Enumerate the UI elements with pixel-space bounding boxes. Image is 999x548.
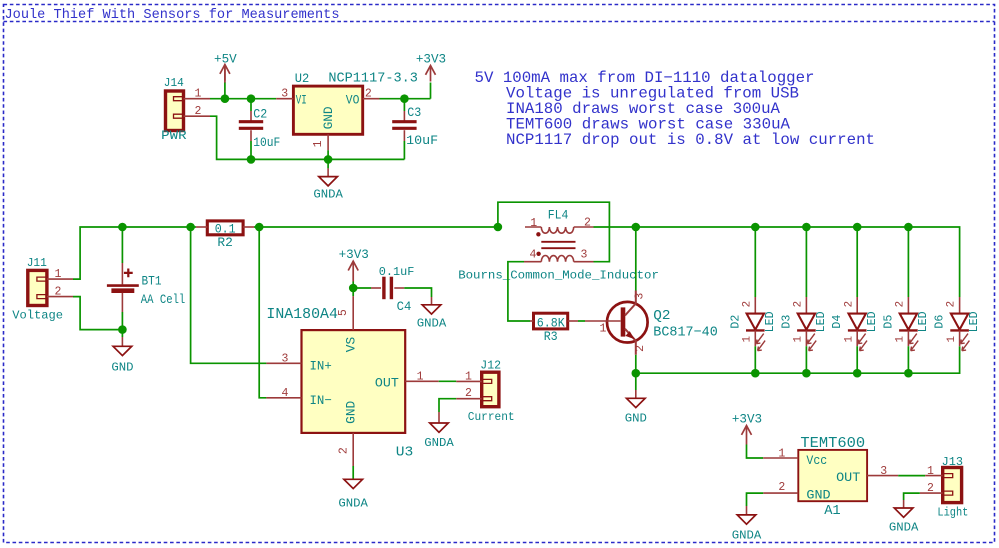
- svg-text:C3: C3: [407, 106, 421, 120]
- wire LED top rail: [755, 227, 959, 297]
- svg-text:LED: LED: [764, 311, 777, 332]
- wire C3 bottom to GNDA rail: [403, 141, 405, 159]
- svg-text:+3V3: +3V3: [416, 52, 446, 66]
- svg-text:1: 1: [465, 371, 472, 384]
- junction D2 anode net: [751, 223, 760, 232]
- wire A1.OUT to J13: [898, 475, 925, 477]
- svg-text:FL4: FL4: [548, 208, 569, 222]
- wire Q2 collector up: [635, 227, 637, 291]
- svg-text:1: 1: [417, 370, 424, 383]
- svg-text:1: 1: [600, 323, 607, 336]
- svg-text:2: 2: [634, 345, 647, 352]
- wire D3 to return rail: [805, 346, 807, 373]
- U2 pin 2 VO: [363, 98, 380, 100]
- op-amp U3 INA180A4: [302, 330, 406, 433]
- FL4 pin 2: [574, 226, 594, 228]
- junction +5V net: [221, 94, 230, 103]
- D4 light arrows: [858, 334, 866, 344]
- capacitor C4 0.1uF: [371, 287, 381, 289]
- U3 pin 2 GND: [352, 433, 354, 466]
- J13 pin 2: [920, 492, 943, 494]
- D4 cathode pin 1: [856, 330, 858, 346]
- resistor R2 0.1: [207, 221, 243, 235]
- wire J14.1 to U2.VI: [210, 98, 276, 100]
- U3 pin 5 VS: [352, 296, 354, 330]
- junction R2 right: [255, 223, 264, 232]
- svg-text:1: 1: [530, 217, 537, 230]
- D5 diode triangle: [900, 314, 917, 330]
- ground GNDA symbol J13: [894, 508, 913, 517]
- svg-text:2: 2: [895, 301, 907, 307]
- svg-text:5: 5: [337, 309, 350, 316]
- svg-text:R3: R3: [544, 330, 558, 344]
- wire FL4.4 to R3: [508, 262, 530, 321]
- svg-text:3: 3: [282, 352, 289, 365]
- ground GNDA symbol J12: [430, 423, 449, 432]
- D5 cathode bar: [899, 329, 918, 331]
- svg-text:OUT: OUT: [836, 470, 861, 485]
- D5 cathode pin 1: [907, 330, 909, 346]
- D2 cathode pin 1: [754, 330, 756, 346]
- svg-text:2: 2: [843, 301, 855, 307]
- D6 anode pin 2: [959, 297, 961, 314]
- svg-text:GNDA: GNDA: [338, 497, 368, 511]
- wire D5 to return rail: [907, 346, 909, 373]
- svg-text:D2: D2: [729, 315, 742, 329]
- wire R3 to Q2 base: [578, 320, 585, 322]
- wire rail to D2: [754, 227, 756, 297]
- svg-text:INA180A4: INA180A4: [266, 306, 338, 323]
- wire: [352, 282, 354, 289]
- svg-text:1: 1: [312, 140, 325, 147]
- wire rail to D4: [856, 227, 858, 297]
- wire emitter to LED return rail: [636, 372, 756, 374]
- D3 cathode pin 1: [805, 330, 807, 346]
- svg-text:Current: Current: [468, 410, 515, 424]
- junction Q2 collector net: [632, 223, 641, 232]
- svg-text:Bourns_Common_Mode_Inductor: Bourns_Common_Mode_Inductor: [458, 269, 659, 283]
- svg-text:GND: GND: [344, 400, 359, 423]
- wire J11.2 to battery minus: [73, 297, 122, 330]
- wire R2 to FL4 rail: [254, 226, 498, 228]
- svg-text:GND: GND: [111, 360, 133, 374]
- Q2 collector: [625, 291, 636, 316]
- FL4 pin 4: [524, 261, 541, 263]
- junction D4 cathode net: [853, 369, 862, 378]
- junction D2 cathode net: [751, 369, 760, 378]
- wire BT1 minus to GND: [121, 312, 123, 330]
- junction FL4 pin1 net: [494, 223, 503, 232]
- FL4 top winding: [541, 227, 573, 233]
- D4 diode triangle: [849, 314, 866, 330]
- svg-text:1: 1: [843, 336, 855, 342]
- wire J12.2 to GNDA: [439, 399, 456, 412]
- svg-text:D4: D4: [831, 315, 844, 329]
- svg-text:2: 2: [338, 447, 351, 454]
- power symbol +3V3 (supply): [430, 66, 432, 82]
- wire VS to C4: [353, 287, 371, 289]
- wire to +3V3: [430, 83, 432, 99]
- sensor A1 TEMT600: [798, 450, 867, 501]
- capacitor C2 pin top: [250, 111, 252, 121]
- wire rail to D5: [907, 227, 909, 297]
- D3 diode triangle: [798, 314, 815, 330]
- svg-text:1: 1: [927, 465, 934, 478]
- svg-text:NCP1117 drop out is 0.8V at lo: NCP1117 drop out is 0.8V at low current: [506, 131, 875, 149]
- wire +3V3 to VS: [352, 288, 354, 296]
- J12 pin 1: [456, 380, 482, 382]
- R2 right pin: [243, 226, 254, 228]
- svg-text:U2: U2: [295, 71, 310, 86]
- D5 anode pin 2: [907, 297, 909, 314]
- J11 pin 2: [47, 296, 73, 298]
- junction C2 bottom: [247, 155, 256, 164]
- ground GNDA symbol U3: [344, 479, 363, 488]
- wire C4 to GNDA: [404, 288, 431, 297]
- svg-text:2: 2: [55, 286, 62, 299]
- capacitor C3 pin top: [403, 111, 405, 121]
- svg-text:Voltage: Voltage: [12, 309, 63, 323]
- U3 pin 3 IN+: [266, 362, 301, 364]
- wire U2.VO to +3V3: [380, 98, 431, 100]
- U2 pin 1 GND: [327, 134, 329, 150]
- svg-text:R2: R2: [217, 236, 233, 250]
- wire R2 left to U3 IN+: [191, 227, 267, 363]
- wire bypass to FL4.3: [498, 202, 610, 262]
- svg-text:2: 2: [793, 301, 805, 307]
- wire J14.2 / GNDA rail: [210, 116, 404, 159]
- svg-text:VS: VS: [344, 337, 359, 353]
- svg-text:3: 3: [634, 293, 647, 300]
- junction D5 anode net: [904, 223, 913, 232]
- svg-text:Light: Light: [937, 505, 968, 519]
- svg-text:LED: LED: [866, 311, 879, 332]
- svg-text:2: 2: [195, 105, 202, 118]
- wire rail to BT1 plus: [121, 227, 123, 263]
- R3 right pin: [568, 320, 578, 322]
- U3 pin 4 IN-: [266, 397, 301, 399]
- wire to GND: [635, 373, 637, 390]
- power +3V3 (TEMT600): [746, 426, 748, 445]
- svg-text:A1: A1: [824, 503, 841, 519]
- junction D4 anode net: [853, 223, 862, 232]
- svg-text:PWR: PWR: [161, 129, 187, 143]
- D4 anode pin 2: [856, 297, 858, 314]
- svg-text:AA Cell: AA Cell: [141, 293, 186, 307]
- svg-text:3: 3: [581, 248, 588, 261]
- wire to C2 top: [250, 99, 252, 111]
- A1 pin 3 OUT: [867, 475, 898, 477]
- junction BT1 minus: [118, 325, 127, 334]
- svg-text:4: 4: [530, 248, 537, 261]
- svg-text:GND: GND: [625, 411, 647, 425]
- svg-text:GNDA: GNDA: [313, 188, 343, 202]
- wire +3V3 to TEMT Vcc: [747, 445, 764, 459]
- FL4 pin 1: [525, 226, 541, 228]
- svg-text:NCP1117-3.3: NCP1117-3.3: [328, 72, 418, 87]
- D5 light arrows: [909, 334, 917, 344]
- svg-text:1: 1: [793, 336, 805, 342]
- junction BT1 plus: [118, 223, 127, 232]
- D3 cathode bar: [797, 329, 816, 331]
- connector J13: [943, 468, 962, 503]
- Q2 base pin 1: [585, 320, 621, 322]
- capacitor C2: [239, 120, 263, 123]
- ground GNDA (A1): [746, 506, 748, 515]
- regulator U2 NCP1117-3.3: [293, 86, 362, 134]
- svg-text:IN+: IN+: [310, 359, 332, 374]
- wire: [191, 226, 196, 228]
- svg-text:J12: J12: [480, 358, 501, 372]
- svg-text:4: 4: [282, 387, 289, 400]
- svg-text:1: 1: [946, 336, 958, 342]
- svg-text:GNDA: GNDA: [417, 316, 447, 330]
- junction VS: [349, 284, 358, 293]
- J13 pin 1: [925, 475, 943, 477]
- svg-text:10uF: 10uF: [253, 136, 280, 150]
- ground GNDA symbol A1: [737, 515, 756, 524]
- D2 cathode bar: [746, 329, 765, 331]
- D3 light arrows: [807, 334, 815, 344]
- svg-text:LED: LED: [917, 311, 930, 332]
- D6 diode triangle: [951, 314, 968, 330]
- svg-text:0.1: 0.1: [215, 222, 236, 237]
- J11 pin 1: [47, 278, 73, 280]
- svg-text:D5: D5: [882, 315, 895, 329]
- svg-text:GND: GND: [321, 106, 336, 129]
- ground GNDA symbol: [319, 177, 338, 186]
- svg-text:+5V: +5V: [214, 52, 237, 66]
- BT1 plus sign: [124, 269, 133, 278]
- svg-text:TEMT600: TEMT600: [800, 436, 865, 452]
- junction Q2 emitter: [632, 369, 641, 378]
- svg-text:VO: VO: [346, 93, 360, 108]
- U2 pin 3 VI: [276, 98, 293, 100]
- D2 anode pin 2: [754, 297, 756, 314]
- wire U3.GND down: [352, 466, 354, 479]
- svg-text:2: 2: [365, 87, 372, 100]
- svg-text:C4: C4: [397, 300, 412, 314]
- junction C3 top: [400, 94, 409, 103]
- R3 left pin: [530, 320, 534, 322]
- R2 left pin: [196, 226, 207, 228]
- svg-text:10uF: 10uF: [406, 134, 438, 148]
- connector J11: [28, 270, 47, 305]
- wire LED bottom rail: [755, 346, 959, 373]
- svg-text:1: 1: [895, 336, 907, 342]
- wire Q2 emitter down: [635, 355, 637, 373]
- ground GNDA symbol C4: [422, 305, 441, 314]
- junction U2 GND: [324, 155, 333, 164]
- D6 light arrows: [961, 334, 969, 344]
- FL4 bottom winding: [541, 255, 573, 261]
- wire to GNDA: [327, 159, 329, 168]
- svg-text:BT1: BT1: [142, 274, 162, 288]
- wire C2 bottom to GNDA rail: [250, 141, 252, 159]
- svg-text:J13: J13: [942, 455, 963, 469]
- svg-text:2: 2: [946, 301, 958, 307]
- FL4 core lines: [541, 241, 575, 243]
- FL4 polarity dot bottom: [536, 252, 540, 256]
- wire to +5V: [224, 82, 226, 98]
- svg-text:IN−: IN−: [310, 393, 332, 408]
- ground GNDA (J12): [438, 412, 440, 423]
- svg-text:2: 2: [741, 301, 753, 307]
- svg-text:GNDA: GNDA: [424, 436, 454, 450]
- wire FL4.2 to LED rail: [594, 226, 756, 228]
- D6 cathode pin 1: [959, 330, 961, 346]
- connector J12: [482, 372, 499, 407]
- wire U3.OUT to J12.1: [439, 380, 457, 382]
- FL4 pin 3: [574, 261, 594, 263]
- junction R2 left: [186, 223, 195, 232]
- svg-text:Q2: Q2: [653, 308, 670, 324]
- wire D4 to return rail: [856, 346, 858, 373]
- wire U2.GND to rail: [327, 150, 329, 159]
- wire to GND: [121, 330, 123, 337]
- D2 light arrows: [756, 334, 764, 344]
- svg-text:GND: GND: [806, 488, 831, 503]
- svg-text:Vcc: Vcc: [806, 453, 827, 468]
- ground GNDA (J13): [903, 500, 905, 508]
- ground GNDA (C4): [431, 297, 433, 305]
- D6 cathode bar: [950, 329, 969, 331]
- D4 cathode bar: [848, 329, 867, 331]
- wire R2 right to U3 IN-: [259, 227, 266, 398]
- wire rail to D3: [805, 227, 807, 297]
- svg-text:GNDA: GNDA: [889, 521, 919, 535]
- svg-text:J11: J11: [27, 256, 47, 270]
- resistor R3 6.8K: [534, 313, 568, 329]
- wire J13.2 to GNDA: [904, 493, 920, 500]
- svg-text:2: 2: [778, 481, 785, 494]
- junction D3 anode net: [802, 223, 811, 232]
- svg-text:OUT: OUT: [375, 376, 399, 391]
- ground GND symbol Q2: [627, 398, 646, 407]
- wire D2 to return rail: [754, 346, 756, 373]
- power +3V3 (U3): [352, 261, 354, 281]
- svg-text:1: 1: [55, 268, 62, 281]
- wire A1.GND to GNDA: [747, 493, 764, 506]
- Q2 emitter with arrow: [625, 329, 636, 355]
- svg-text:2: 2: [465, 387, 472, 400]
- D3 anode pin 2: [805, 297, 807, 314]
- title underline (dashed): [4, 21, 995, 23]
- svg-text:GNDA: GNDA: [732, 528, 762, 542]
- svg-text:LED: LED: [815, 311, 828, 332]
- A1 pin 1 Vcc: [763, 457, 798, 459]
- wire J11.1 to rail: [73, 227, 191, 279]
- svg-text:C2: C2: [253, 108, 267, 122]
- svg-text:1: 1: [742, 336, 754, 342]
- J14 pin 1: [184, 98, 211, 100]
- capacitor C3 pin bottom: [403, 130, 405, 141]
- svg-text:+3V3: +3V3: [339, 248, 369, 262]
- svg-text:2: 2: [927, 482, 934, 495]
- capacitor C3: [392, 120, 416, 123]
- U3 pin 1 OUT: [405, 380, 439, 382]
- svg-text:2: 2: [584, 217, 591, 230]
- svg-text:VI: VI: [296, 93, 307, 108]
- svg-text:1: 1: [778, 447, 785, 460]
- svg-text:+3V3: +3V3: [732, 412, 762, 426]
- svg-text:BC817−40: BC817−40: [653, 325, 718, 341]
- junction D5 cathode net: [904, 369, 913, 378]
- svg-text:6.8K: 6.8K: [537, 315, 565, 330]
- FL4 polarity dot top: [536, 232, 540, 236]
- J14 pin 2: [184, 115, 211, 117]
- capacitor C2 pin bottom: [250, 130, 252, 141]
- svg-text:LED: LED: [968, 311, 981, 332]
- power symbol +5V: [224, 65, 226, 81]
- svg-text:0.1uF: 0.1uF: [379, 265, 415, 279]
- svg-text:D6: D6: [934, 315, 947, 329]
- svg-text:Joule Thief With Sensors for M: Joule Thief With Sensors for Measurement…: [5, 8, 340, 23]
- svg-text:3: 3: [880, 465, 887, 478]
- J12 pin 2: [456, 398, 482, 400]
- junction C2 top: [247, 94, 256, 103]
- connector J14: [166, 91, 184, 131]
- svg-text:3: 3: [281, 87, 288, 100]
- svg-text:J14: J14: [164, 76, 184, 90]
- ground GND symbol: [113, 346, 132, 355]
- D2 diode triangle: [747, 314, 764, 330]
- svg-text:1: 1: [195, 88, 202, 101]
- svg-text:U3: U3: [396, 445, 414, 461]
- transistor Q2 BC817-40: [607, 302, 648, 343]
- svg-text:D3: D3: [780, 315, 793, 329]
- junction D3 cathode net: [802, 369, 811, 378]
- A1 pin 2 GND: [763, 492, 798, 494]
- wire to C3: [403, 99, 405, 111]
- Q2 base bar: [621, 307, 626, 336]
